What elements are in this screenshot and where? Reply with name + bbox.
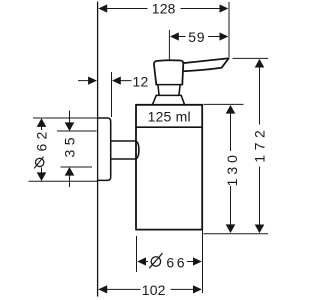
svg-text:125 ml: 125 ml: [148, 109, 191, 125]
svg-text:66: 66: [166, 255, 187, 271]
svg-text:35: 35: [61, 133, 77, 157]
svg-text:12: 12: [133, 73, 149, 89]
svg-text:102: 102: [142, 282, 166, 298]
svg-text:130: 130: [224, 151, 240, 186]
svg-text:128: 128: [152, 1, 176, 17]
svg-text:62: 62: [34, 128, 50, 152]
svg-text:59: 59: [188, 29, 205, 45]
svg-text:172: 172: [252, 126, 268, 163]
